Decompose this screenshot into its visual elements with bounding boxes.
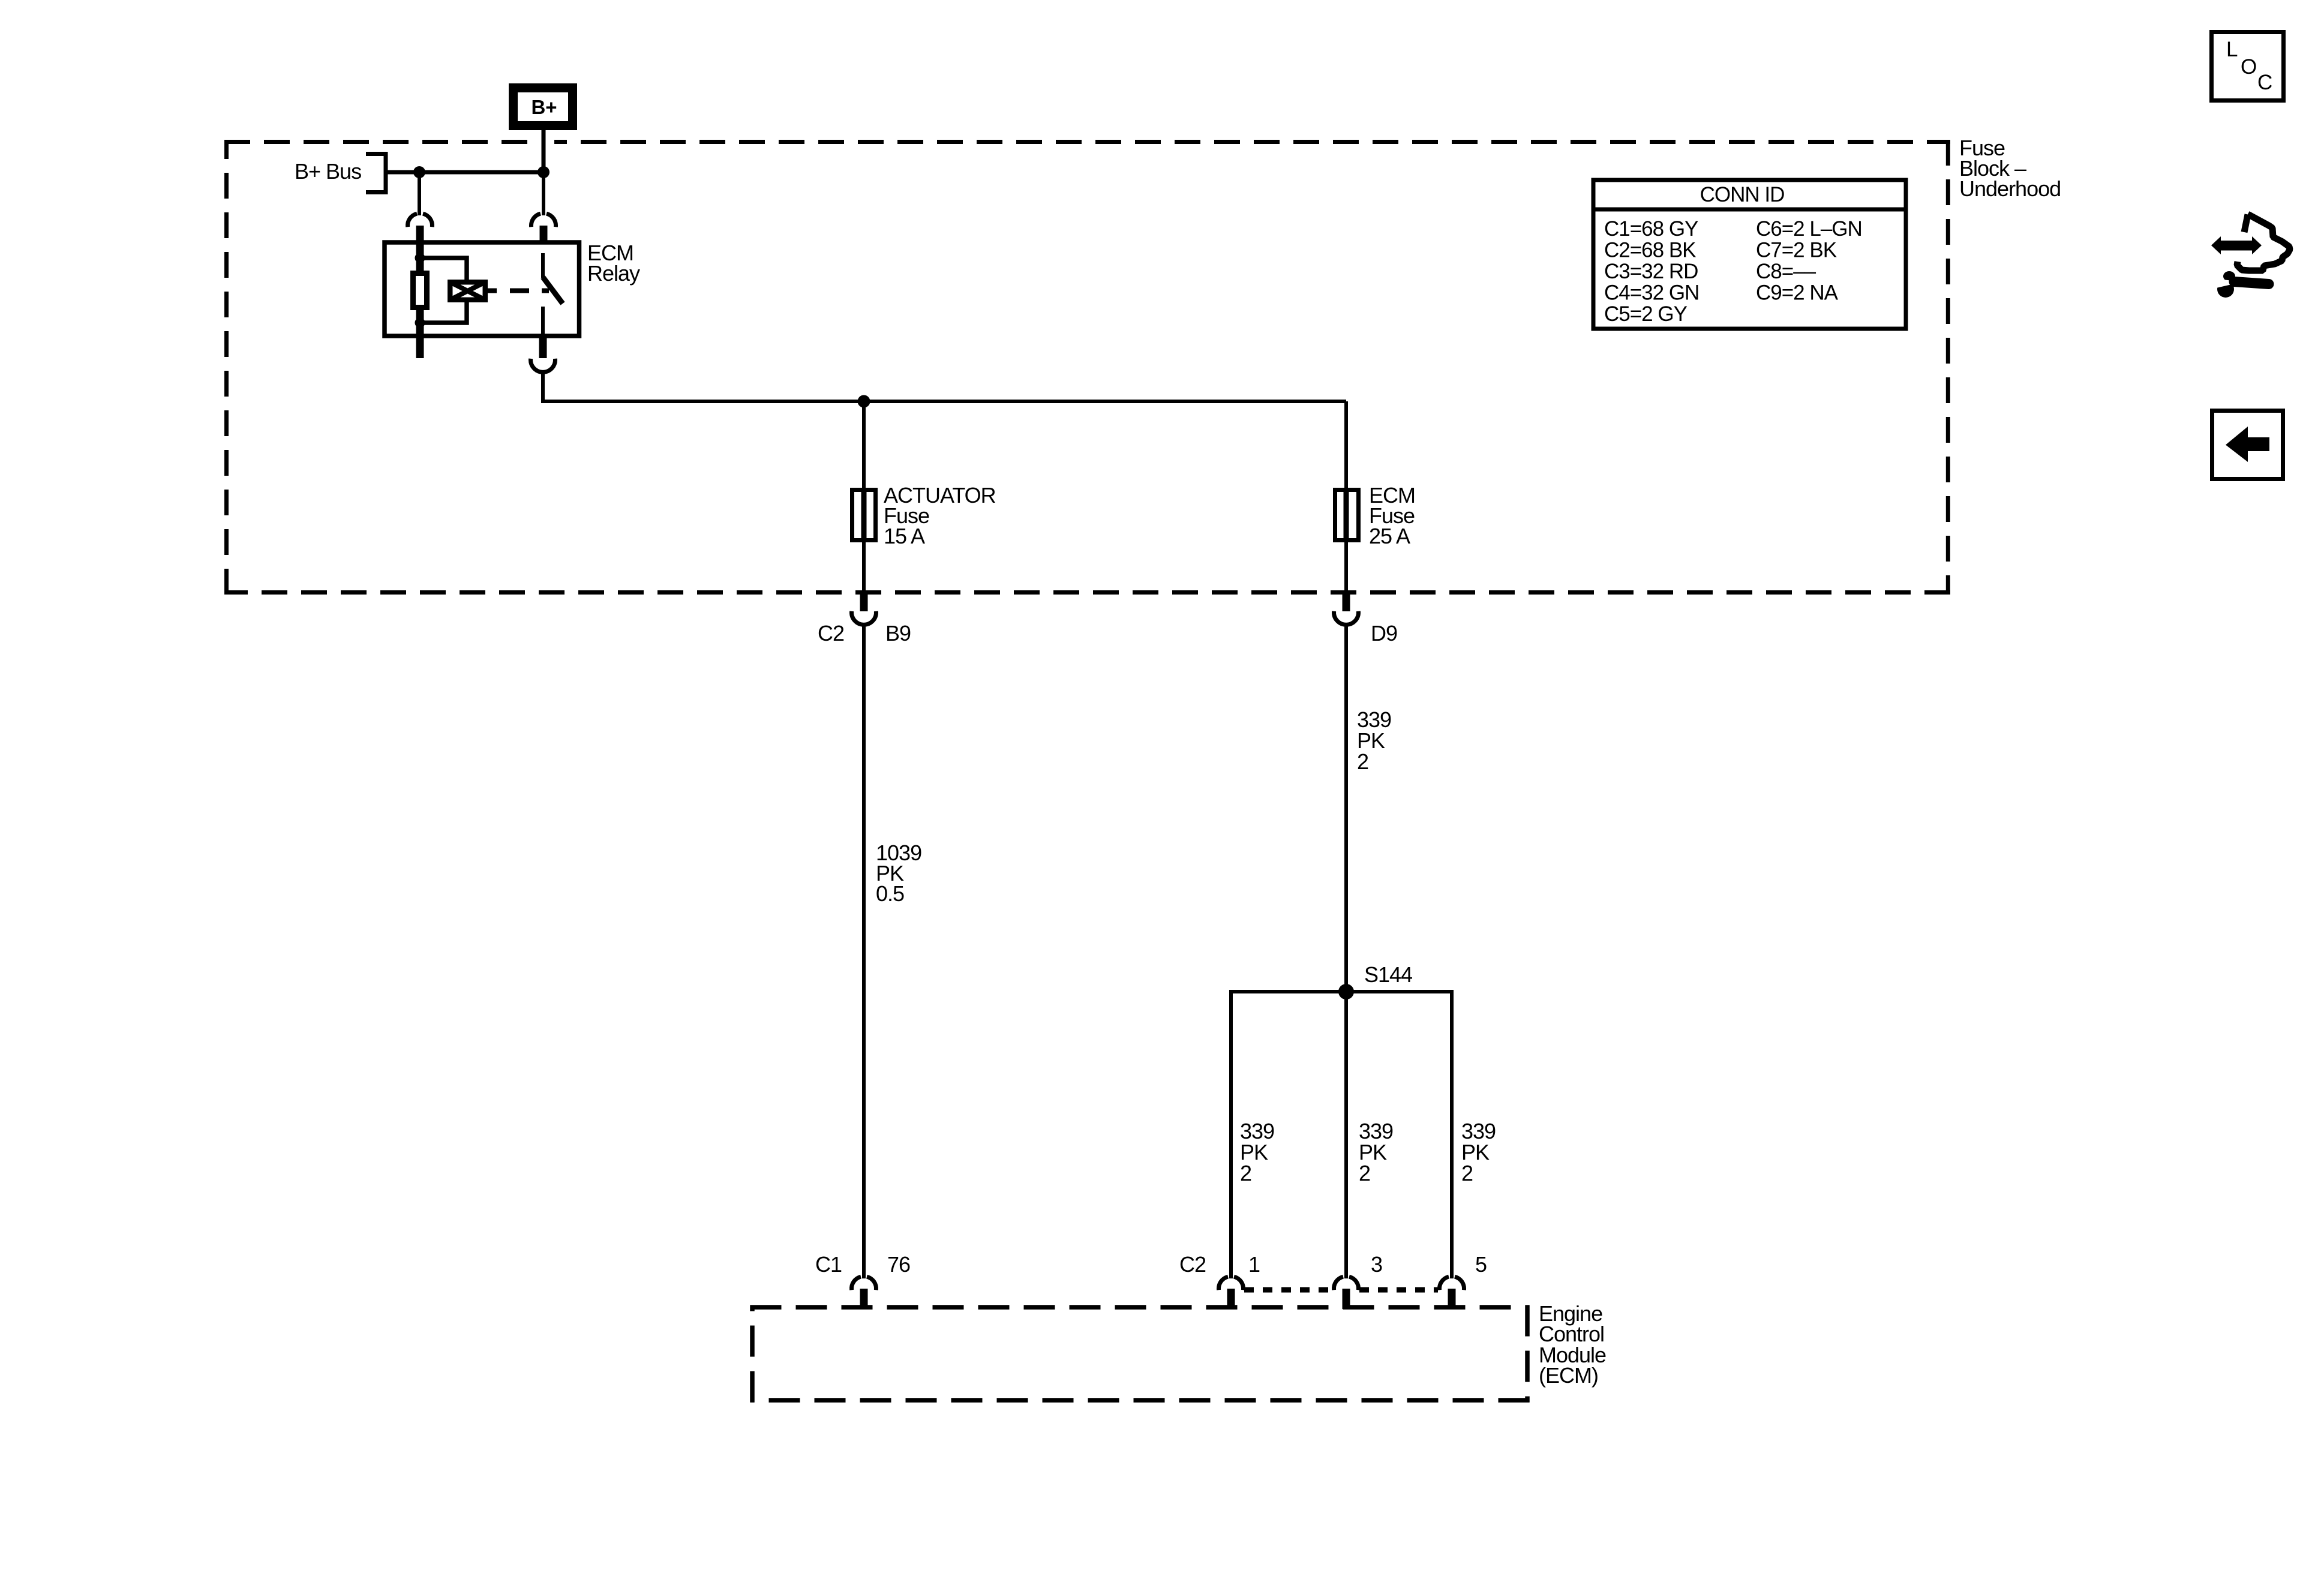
relay output connector (female cup) xyxy=(531,359,556,373)
svg-text:15 A: 15 A xyxy=(884,524,925,548)
svg-text:2: 2 xyxy=(1359,1161,1370,1185)
wire circuit 1039 PK 0.5 to ECM C1 xyxy=(862,623,866,1278)
ECM pin C1-76 male stub xyxy=(860,1289,868,1309)
wire actuator fuse to exit pin xyxy=(862,542,866,591)
svg-text:C9=2 NA: C9=2 NA xyxy=(1756,281,1839,305)
svg-text:C5=2 GY: C5=2 GY xyxy=(1604,302,1688,326)
engine control module dashed boundary xyxy=(750,1305,1530,1403)
svg-text:C4=32 GN: C4=32 GN xyxy=(1604,281,1699,305)
wire B+ bus xyxy=(388,170,544,175)
svg-text:S144: S144 xyxy=(1364,962,1412,987)
fuse ACTUATOR 15 A xyxy=(861,488,867,542)
ECM pin C2-1 connector (female arc) xyxy=(1218,1277,1243,1290)
relay internal junction bottom xyxy=(415,318,425,328)
svg-text:C2: C2 xyxy=(818,621,844,646)
svg-text:3: 3 xyxy=(1371,1252,1382,1277)
B+ Bus bracket xyxy=(366,154,386,193)
svg-text:CONN ID: CONN ID xyxy=(1700,183,1785,206)
relay pin 2 connector (female arc) xyxy=(531,214,556,227)
wire down to ECM fuse xyxy=(1344,401,1348,488)
svg-text:2: 2 xyxy=(1461,1161,1473,1185)
splice S144 xyxy=(1338,984,1354,999)
junction on bus left xyxy=(413,166,425,178)
relay internal junction top xyxy=(415,253,425,263)
svg-text:(ECM): (ECM) xyxy=(1539,1363,1598,1388)
svg-text:B9: B9 xyxy=(885,621,911,646)
relay pin 1 connector (female arc) xyxy=(407,214,432,227)
ECM pin C1-76 connector (female arc) xyxy=(851,1277,876,1290)
relay switch blade xyxy=(543,277,563,304)
svg-text:C2=68 BK: C2=68 BK xyxy=(1604,239,1696,262)
relay resistor xyxy=(413,274,427,308)
relay internal wire to coil top xyxy=(420,258,467,280)
svg-text:L: L xyxy=(2226,38,2238,61)
relay pin 1 male stub and coil-side internal column xyxy=(416,226,424,358)
exit pin D9 male stub xyxy=(1343,591,1350,611)
wire ECM fuse to exit pin xyxy=(1344,542,1348,591)
svg-text:Underhood: Underhood xyxy=(1959,176,2061,201)
wire B+ down to bus xyxy=(542,130,546,172)
svg-text:B+ Bus: B+ Bus xyxy=(295,159,361,184)
icon serviceable connector (double arrow, connector outline, wrench) xyxy=(2211,214,2290,298)
exit connector D9 (female cup) xyxy=(1334,611,1359,625)
wire relay output down and across to fuses xyxy=(543,370,1346,401)
junction on bus right xyxy=(538,166,550,178)
relay switch fixed contact top xyxy=(541,253,545,278)
svg-text:D9: D9 xyxy=(1371,621,1397,646)
svg-text:0.5: 0.5 xyxy=(876,881,904,906)
svg-text:C3=32 RD: C3=32 RD xyxy=(1604,260,1698,283)
relay pin 5 stub (switch output) xyxy=(539,336,547,358)
svg-text:C6=2 L–GN: C6=2 L–GN xyxy=(1756,217,1862,241)
wire down to actuator fuse xyxy=(862,401,866,488)
ECM pin C2-3 connector (female arc) xyxy=(1334,1277,1358,1290)
ECM pin C2-3 male stub xyxy=(1343,1289,1350,1309)
exit pin B9 male stub xyxy=(860,591,868,611)
wire splice right branch xyxy=(1450,990,1454,1278)
svg-text:C2: C2 xyxy=(1179,1252,1206,1277)
ECM relay box xyxy=(385,242,580,336)
relay switch fixed contact bottom xyxy=(541,307,545,336)
wire bus to relay left connector xyxy=(418,172,421,215)
svg-text:Relay: Relay xyxy=(587,261,640,286)
relay internal wire coil bottom xyxy=(420,302,467,323)
C2 connector dashed link pin1-pin3 xyxy=(1244,1287,1332,1293)
wire splice left branch xyxy=(1229,990,1233,1278)
svg-text:2: 2 xyxy=(1357,749,1368,774)
svg-text:O: O xyxy=(2241,55,2257,79)
icon previous page arrow xyxy=(2212,411,2283,479)
svg-text:25 A: 25 A xyxy=(1369,524,1410,548)
wire bus to relay right connector xyxy=(542,172,545,215)
ECM pin C2-5 connector (female arc) xyxy=(1439,1277,1464,1290)
wire splice middle branch xyxy=(1344,992,1348,1278)
fuse ECM 25 A xyxy=(1344,488,1349,542)
relay actuation dashed link xyxy=(510,289,529,293)
relay coil lead xyxy=(488,289,497,293)
splice bus wire xyxy=(1231,990,1452,993)
gap in fuse block top edge at B+ wire xyxy=(535,139,554,146)
svg-text:C8=––: C8=–– xyxy=(1756,260,1816,283)
relay pin 2 male stub xyxy=(540,226,548,244)
svg-text:C: C xyxy=(2257,71,2272,94)
svg-text:C1: C1 xyxy=(815,1252,842,1277)
ECM pin C2-1 male stub xyxy=(1227,1289,1235,1309)
relay coil xyxy=(450,282,485,300)
fuse block underhood dashed boundary xyxy=(224,140,1950,595)
svg-text:2: 2 xyxy=(1240,1161,1251,1185)
icon LOC xyxy=(2212,32,2284,101)
C2 connector dashed link pin3-pin5 xyxy=(1359,1287,1438,1293)
ECM pin C2-5 male stub xyxy=(1448,1289,1456,1309)
junction at actuator fuse branch xyxy=(858,395,870,408)
CONN ID table xyxy=(1593,180,1906,329)
wire circuit 339 PK 2 to splice xyxy=(1344,623,1348,992)
svg-text:C1=68 GY: C1=68 GY xyxy=(1604,217,1698,241)
svg-text:B+: B+ xyxy=(531,96,557,118)
exit connector C2/B9 (female cup) xyxy=(851,611,876,625)
svg-text:76: 76 xyxy=(887,1252,910,1277)
power node B+ xyxy=(509,83,577,130)
svg-text:5: 5 xyxy=(1475,1252,1487,1277)
svg-text:C7=2 BK: C7=2 BK xyxy=(1756,239,1837,262)
svg-text:1: 1 xyxy=(1248,1252,1260,1277)
